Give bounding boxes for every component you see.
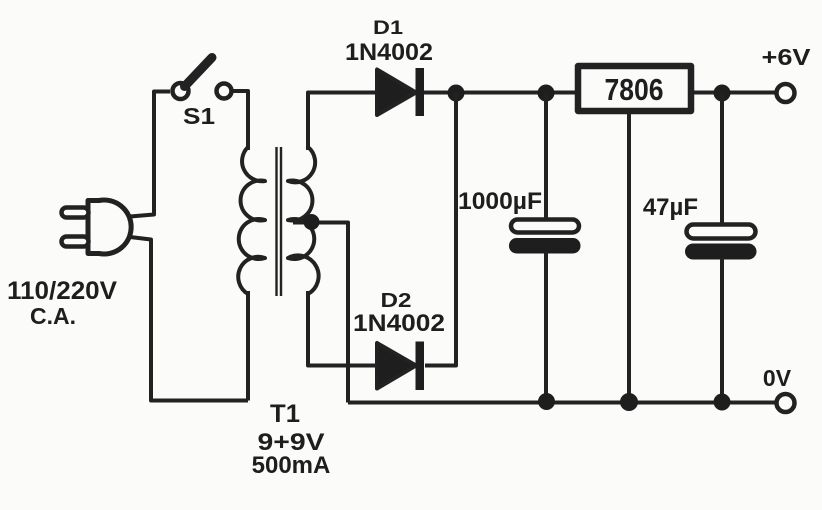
junction node C1 top — [538, 85, 555, 102]
terminal 0V — [777, 394, 795, 412]
transformer core — [277, 147, 282, 296]
svg-text:7806: 7806 — [605, 72, 664, 107]
svg-text:1N4002: 1N4002 — [353, 310, 445, 337]
junction node regulator ground — [620, 393, 638, 411]
junction node C1 ground — [538, 393, 555, 410]
svg-text:1000µF: 1000µF — [458, 188, 542, 215]
AC plug P1 — [62, 200, 132, 254]
svg-text:0V: 0V — [763, 365, 792, 391]
junction node center tap — [304, 214, 320, 230]
capacitor C1 1000uF — [509, 93, 581, 401]
svg-text:T1: T1 — [270, 400, 300, 428]
svg-text:D1: D1 — [373, 18, 404, 39]
svg-text:500mA: 500mA — [252, 452, 331, 479]
wire plug bottom to primary bottom rail — [130, 237, 248, 401]
wire switch to transformer primary top — [232, 91, 249, 150]
svg-text:D2: D2 — [381, 290, 412, 312]
svg-text:47µF: 47µF — [643, 194, 698, 221]
wire plug top to switch — [130, 92, 170, 217]
wire D1 cathode to regulator input (V+ rail) — [424, 91, 578, 95]
capacitor C2 47uF — [685, 93, 757, 402]
svg-text:S1: S1 — [183, 103, 215, 129]
transformer T1 secondary winding — [288, 147, 319, 294]
wire regulator output to +6V terminal — [694, 91, 775, 95]
switch S1 — [173, 58, 232, 100]
junction node C2 ground — [714, 394, 731, 411]
wire D2 branch from V+ rail — [425, 93, 456, 366]
svg-text:1N4002: 1N4002 — [345, 39, 433, 66]
diode D2 — [377, 342, 424, 391]
wire regulator ground pin — [627, 114, 631, 402]
svg-text:+6V: +6V — [762, 44, 812, 70]
svg-text:C.A.: C.A. — [30, 303, 76, 329]
wire secondary bottom to D2 anode — [308, 291, 377, 366]
wire primary bottom to rail — [246, 291, 250, 401]
terminal +6V — [777, 84, 795, 102]
transformer T1 primary winding — [238, 147, 265, 294]
voltage regulator U1 7806 — [578, 66, 691, 111]
junction node D2 join — [448, 85, 465, 102]
junction node C2 top — [714, 85, 731, 102]
diode D1 — [377, 68, 424, 116]
wire center tap to 0V rail — [293, 223, 348, 403]
0V rail wire — [348, 401, 776, 405]
svg-text:110/220V: 110/220V — [7, 277, 117, 305]
wire secondary top to D1 anode — [308, 93, 377, 151]
